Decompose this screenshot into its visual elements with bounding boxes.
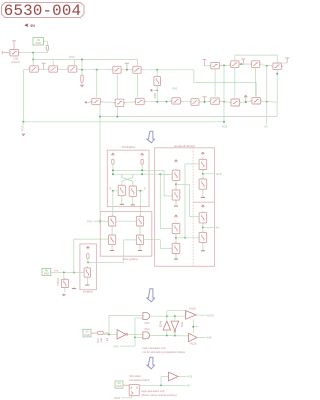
wire v T8 drop [214, 69, 216, 97]
wire u5 out [197, 336, 206, 338]
transistor PP Q7 [199, 211, 207, 224]
wire A0m vertical [266, 66, 268, 124]
wire res up branch [73, 239, 75, 272]
wire RES stub [152, 89, 157, 91]
transistor INV Q [84, 266, 90, 278]
wire PP q4 feed h1 [144, 239, 161, 241]
wire T13 to bus1 [116, 107, 118, 117]
transistor T10 [250, 61, 262, 68]
transistor PP Q5 [199, 158, 207, 171]
ground WG gnd2 [138, 246, 142, 251]
transistor T2 [28, 66, 40, 72]
wire mesh seg3 [241, 63, 251, 65]
transistor T13 [114, 99, 126, 106]
wire R0 drop [63, 272, 65, 279]
svg-text:PAD: PAD [44, 272, 49, 276]
svg-text:PH1: PH1 [172, 87, 178, 91]
svg-text:protect: protect [11, 60, 20, 64]
transistor T8 [209, 62, 221, 68]
wire WG gate4 feed [124, 239, 137, 241]
transistor T9 [229, 61, 241, 68]
ground DS gnd2 [131, 198, 135, 205]
wire g2 out [150, 334, 189, 337]
svg-text:Φ0: Φ0 [30, 24, 35, 28]
wire buffer in [161, 376, 169, 378]
wire pull drop [81, 59, 83, 69]
transistor PP Q8 [199, 231, 207, 244]
wire PH1 bottom wire [121, 397, 132, 399]
wire R0 out [51, 271, 74, 273]
junction lat n1 [166, 315, 168, 317]
junction PP n2 [175, 237, 177, 239]
wire corner right v [193, 70, 195, 83]
pad A0 PAD mid [83, 329, 91, 337]
ground PP gnd L4 [174, 255, 178, 259]
wire PP q4 feed v [159, 240, 161, 249]
wire pull low [81, 82, 83, 84]
wire res top [156, 70, 158, 76]
svg-text:C02p: C02p [21, 125, 25, 132]
wire gate2 in2 vert [134, 318, 136, 346]
VCC T-bar VCC row2 [202, 97, 206, 102]
svg-text:A0-: A0- [187, 384, 191, 388]
junction bus1 n1 [116, 116, 118, 118]
ground PP gnd R2 [201, 191, 205, 198]
svg-text:PAD: PAD [116, 384, 121, 388]
latch inverter down U3 [171, 321, 179, 332]
svg-text:A0.B: A0.B [216, 172, 222, 176]
wire row seg f [143, 69, 194, 71]
wire S gate wire [136, 190, 143, 192]
ground arrow pulldown gnd [81, 84, 84, 86]
junction gate2 node [134, 336, 136, 338]
transistor T14 [134, 98, 146, 104]
VCC arrow DS vcc R [141, 153, 144, 156]
input pin arrow row2 input arrow [84, 101, 86, 104]
junction mesh n3 [266, 65, 268, 67]
wire row seg a [23, 69, 28, 71]
junction bus2 end node [223, 121, 225, 123]
VCC T-bar VCC T9-T10 [241, 59, 245, 65]
wire row seg b [40, 69, 47, 71]
svg-text:S: S [144, 186, 146, 190]
svg-text:C02: C02 [96, 338, 100, 343]
svg-text:PH2: PH2 [69, 55, 75, 59]
wire g5 drop [137, 59, 139, 66]
wire bus1 [100, 116, 277, 118]
VCC arrow PP vcc R1 [201, 152, 204, 155]
transistor T6 [131, 66, 143, 73]
transistor DS Q1 [118, 184, 125, 197]
wire v T4 drop [96, 70, 98, 98]
svg-text:write gating: write gating [122, 257, 138, 261]
wire T11 right pin wire [282, 62, 287, 64]
wire v T11 drop [276, 69, 278, 102]
junction lat n3 [166, 334, 168, 336]
junction vcc node [126, 69, 128, 71]
junction row2 res node [156, 101, 158, 103]
junction pull node [81, 69, 83, 71]
AND gate G2 [143, 332, 150, 339]
svg-text:inverter: inverter [83, 290, 93, 294]
VCC arrow INV vcc [86, 246, 89, 249]
wire INV gate [74, 272, 84, 274]
wire row seg c [59, 69, 67, 71]
junction res gate node [156, 69, 158, 71]
svg-text:not for estimating propagation: not for estimating propagation delays [143, 350, 186, 354]
wire PP gate4 feed [176, 237, 199, 239]
junction DS n4 [141, 173, 143, 175]
wire row2 seg5 [199, 101, 210, 104]
VCC T-bar VCC T8 gate [202, 60, 206, 66]
junction A0 node [32, 52, 34, 54]
transistor T1 C02 protect [8, 50, 20, 56]
svg-text:RES: RES [153, 93, 157, 99]
junction INV gate node [73, 272, 75, 274]
wire left branch [22, 70, 24, 122]
flow arrow 1 [147, 131, 155, 143]
wire corner right v2 [255, 83, 257, 97]
wire enable tie [192, 319, 194, 333]
wire WG q1 top [112, 191, 114, 217]
wire T9 top [234, 55, 236, 61]
component protect oval [97, 331, 103, 334]
junction R0 node [63, 271, 65, 273]
ground PP gnd L2 [174, 202, 178, 207]
input pin arrow RES pin [150, 89, 152, 92]
transistor T19 [250, 98, 262, 104]
wire v T6 drop [137, 73, 139, 97]
svg-text:PH2: PH2 [114, 344, 120, 348]
wire top rail lat [167, 310, 186, 312]
block DS flipflop [107, 150, 149, 206]
wire pull mid [81, 70, 83, 76]
latch U6 [129, 385, 139, 396]
VCC arrow PP vcc L3 [175, 215, 178, 218]
transistor T4 [67, 66, 79, 72]
wire v T9 drop [234, 67, 236, 98]
transistor T20 power [61, 278, 68, 289]
wire WG q2 top [139, 191, 141, 217]
wire PH2 wire [120, 345, 135, 347]
transistor WG Q1 [109, 215, 116, 227]
wire mesh seg2 [221, 64, 231, 66]
junction enable node [192, 326, 194, 328]
svg-text:logic equivalent only: logic equivalent only [143, 346, 167, 350]
tristate buffer U5 [189, 333, 197, 341]
wire resistor to bus [46, 50, 48, 52]
pin stub left edge [2, 51, 8, 54]
resistor INV R [87, 254, 89, 259]
wire DS out1 to gate [164, 195, 172, 197]
transistor T18 [229, 99, 241, 106]
resistor DS R1 [112, 159, 114, 164]
junction R node [112, 190, 114, 192]
wire row seg e [123, 69, 132, 71]
wire mesh seg1 [205, 65, 211, 67]
junction mesh n1 [223, 64, 225, 66]
transistor T17 [209, 98, 221, 104]
wire buffer in riser [160, 377, 162, 386]
ground PP gnd R4 [201, 244, 205, 251]
wire A0 bus 1 [20, 52, 48, 54]
enable pin tick [195, 326, 198, 328]
wire top rail stub1 [166, 311, 168, 317]
wire WG gate tie [116, 220, 137, 222]
VCC T-bar VCC T1 [12, 41, 16, 50]
block write gating [100, 212, 152, 257]
wire DS out1 corner h [163, 170, 165, 196]
wire PP q1q2 to v2 [176, 183, 190, 185]
svg-text:A0.B: A0.B [222, 124, 228, 128]
wire DS cross 1 [122, 174, 133, 184]
wire PP v3 [202, 170, 204, 180]
junction S node [139, 190, 141, 192]
junction gate rail node [32, 58, 34, 60]
junction PP out1 node [202, 173, 204, 175]
wire res down [156, 86, 158, 102]
junction A0B tap node [223, 101, 225, 103]
svg-text:DS flipflop: DS flipflop [122, 145, 136, 149]
wire row2 seg8 [261, 100, 277, 103]
wire WG v1 [111, 226, 113, 235]
wire INV r drop [87, 259, 89, 263]
wire write feed [99, 117, 101, 212]
wire row2 seg2 [124, 101, 135, 103]
wire mid up [108, 315, 110, 334]
wire DS rail1 [113, 169, 164, 171]
VCC T-bar cap T2-T3 [42, 63, 46, 69]
buffer U7 [169, 372, 179, 381]
junction drop1 node [96, 69, 98, 71]
VCC arrow VCC arrow row2 [244, 95, 247, 101]
wire T11 top [276, 55, 278, 63]
resistor R pulldown [81, 75, 84, 82]
wire corner right h [194, 82, 256, 84]
flow arrow 3 [147, 357, 155, 369]
wire R gate wire [111, 190, 118, 192]
wire A0B vertical [223, 65, 225, 124]
junction row2 n2 [166, 101, 168, 103]
resistor R protect [46, 45, 48, 50]
junction A0m tap node [266, 101, 268, 103]
ground DS gnd1 [120, 198, 124, 205]
wire WG gate4 drop [123, 240, 125, 263]
svg-text:A0-: A0- [216, 226, 220, 230]
resistor DS R2 [141, 159, 143, 164]
wire gate2 in2 jog [135, 336, 143, 338]
wire row2 seg4 [181, 100, 191, 103]
wire u3 bot stub [174, 332, 176, 335]
wire pad to oval [91, 332, 97, 334]
transistor T7 res [154, 75, 161, 87]
wire latch out [139, 384, 186, 386]
wire gate rail [33, 58, 137, 60]
junction PP long node [184, 237, 186, 239]
pad R0 PAD [42, 268, 51, 275]
wire PP q4 feed h2 [160, 247, 172, 249]
transistor T15 [170, 98, 182, 104]
wire DS out2 to gate [156, 173, 171, 175]
svg-text:···: ··· [171, 308, 174, 311]
wire top rail stub2 [185, 311, 187, 315]
latch inverter up U2 [163, 321, 170, 330]
transistor T12 [90, 98, 102, 104]
wire top rail to gate [109, 314, 143, 316]
wire PP long vert [184, 164, 186, 238]
wire PP v4 [202, 223, 204, 233]
junction latch out node [160, 384, 162, 386]
svg-text:C02pw: C02pw [56, 278, 60, 286]
wire PP v1 [175, 180, 177, 190]
wire row2 seg3 [145, 101, 172, 103]
transistor PP Q3 [172, 222, 180, 235]
svg-text:74126: 74126 [189, 341, 197, 345]
svg-text:PH1: PH1 [115, 396, 121, 400]
sheet port symbol [24, 23, 28, 27]
wire gate1 in2 jog [135, 317, 143, 319]
wire row2 seg1 [101, 101, 116, 103]
svg-text:74126: 74126 [189, 307, 197, 311]
wire pad drop [46, 41, 48, 45]
junction DS out node [159, 173, 161, 175]
svg-text:ADDR: ADDR [207, 313, 214, 317]
junction lat n4 [174, 335, 176, 337]
wire PP q3 feed v [159, 174, 161, 228]
AND gate G1 [143, 313, 150, 320]
wire u7 out [178, 376, 186, 378]
ground WG gnd1 [110, 246, 114, 251]
transistor T5 [111, 66, 123, 73]
ground arrow T20 gnd arrow [62, 293, 65, 295]
VCC arrow DS vcc L [111, 153, 114, 156]
wire row seg d [78, 69, 111, 71]
wire WG gate3 feed [74, 238, 109, 240]
wire u2 bot stub [166, 330, 168, 335]
junction pull node top [81, 58, 83, 60]
wire inv1 in [103, 333, 117, 335]
transistor WG Q4 [136, 234, 143, 246]
junction T11 drop node [276, 73, 278, 75]
wire g2 drop [52, 59, 54, 65]
wire g1 out [150, 315, 186, 317]
wire bus2 [23, 121, 224, 123]
svg-text:PAD: PAD [84, 333, 89, 337]
svg-text:A0B: A0B [207, 336, 212, 340]
transistor PP Q4 [172, 242, 180, 255]
wire INV down [86, 277, 88, 283]
wire bus1 left up [99, 106, 101, 117]
wire A0 drop to row [32, 53, 34, 66]
svg-text:PH1: PH1 [87, 220, 93, 224]
junction PP out2 node [202, 226, 204, 228]
wire u3 top stub [174, 316, 176, 321]
transistor PP Q2 [172, 189, 180, 202]
junction PP n1 [175, 183, 177, 185]
pin mark [106, 339, 108, 340]
wire DS cross 2 [122, 174, 133, 183]
ground arrow left pin arrow [22, 133, 25, 135]
VCC T-bar VCC T5-T6 [125, 63, 129, 69]
wire PH1 into gate [94, 220, 109, 222]
wire PH1 bottom riser [131, 396, 133, 398]
block inverter [80, 244, 97, 290]
svg-text:(doesn't show original circuit: (doesn't show original circuitry) [141, 393, 177, 397]
wire pad to latch [123, 384, 129, 386]
wire pad to resistor [44, 40, 48, 42]
svg-text:PH2: PH2 [180, 322, 183, 327]
svg-text:PAD: PAD [36, 41, 41, 45]
block divider horizontal [193, 201, 214, 203]
wire u4 out [196, 314, 206, 316]
inverter U1 [117, 330, 128, 339]
wire u2 top stub [166, 316, 168, 321]
junction lat n2 [174, 315, 176, 317]
transistor WG Q3 [109, 234, 116, 246]
pad A0 PAD bottom [115, 381, 123, 388]
svg-text:6530-004: 6530-004 [4, 2, 81, 20]
svg-text:fully static: fully static [129, 374, 141, 378]
wire WG v2 [139, 226, 141, 235]
VCC arrow PP vcc L1 [175, 160, 178, 163]
title box 6530-004 [2, 3, 85, 18]
wire row2 seg6 [220, 100, 231, 103]
flow arrow 2 [147, 289, 155, 302]
transistor PP Q6 [199, 178, 207, 191]
junction bus2 corner node [22, 121, 24, 123]
svg-text:PH1: PH1 [145, 327, 151, 331]
wire mesh seg4 [261, 65, 272, 66]
junction DS n1 [112, 169, 114, 171]
wire mesh top rail [235, 54, 277, 56]
ground stray gnd [72, 287, 76, 289]
junction mesh n2 [240, 63, 242, 65]
junction RES node [156, 89, 158, 91]
tristate buffer U4 [186, 311, 197, 320]
block pushpull drivers [155, 148, 215, 266]
wire bus1 right up [276, 102, 278, 117]
junction mid node [108, 333, 110, 335]
junction bus1 n2 [99, 116, 101, 118]
wire inv1 out [128, 333, 143, 335]
transistor PP Q1 [172, 169, 180, 182]
svg-text:A0-: A0- [264, 124, 268, 128]
wire DS r1 drop [112, 164, 114, 174]
transistor DS Q2 [129, 185, 136, 198]
svg-text:transparent latch: transparent latch [129, 378, 150, 382]
wire PP q3 feed h [160, 228, 172, 230]
transistor T11 [271, 63, 283, 69]
junction DS n3 [112, 173, 114, 175]
svg-text:logic equivalent only,: logic equivalent only, [141, 389, 165, 393]
junction row2 arrow node [245, 101, 247, 103]
wire INV out [88, 261, 124, 263]
wire PP v189 [189, 184, 191, 216]
wire PP gate1 feed h [185, 163, 199, 165]
VCC T-bar VCC T11 right [285, 58, 289, 63]
ground INV gnd [85, 283, 89, 285]
transistor T3 [47, 66, 59, 72]
wire PP v2 [175, 234, 177, 244]
wire bus2 pin stub [22, 122, 24, 124]
junction row2 vcc node [204, 101, 206, 103]
wire DS rail2 [113, 173, 156, 175]
block divider dashed [192, 148, 194, 266]
wire DS r2 drop [141, 164, 143, 174]
svg-text:PH2B: PH2B [158, 321, 161, 328]
wire PP out2 [203, 226, 215, 228]
wire g3 drop [74, 59, 76, 65]
